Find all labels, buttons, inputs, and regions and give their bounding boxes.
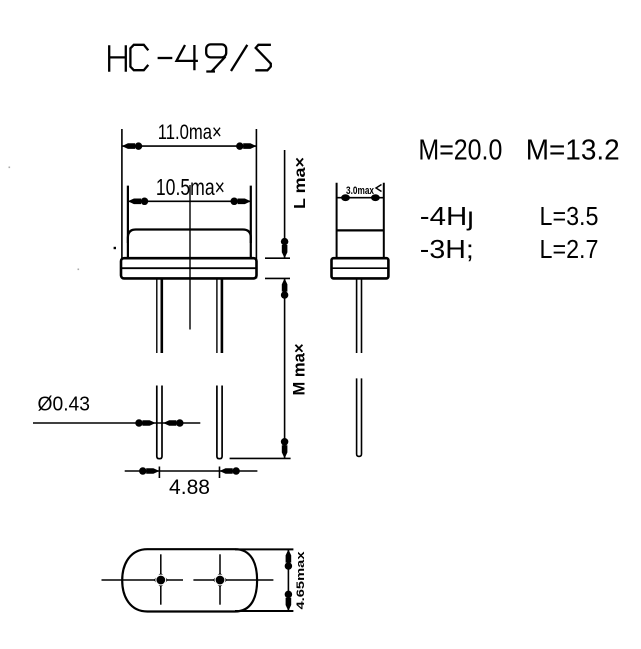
svg-text:4.88: 4.88: [169, 476, 210, 499]
svg-text:-4Hȷ: -4Hȷ: [420, 201, 474, 231]
svg-text:11.0ma×: 11.0ma×: [158, 121, 222, 144]
svg-text:M=13.2: M=13.2: [526, 135, 620, 167]
svg-text:M=20.0: M=20.0: [418, 135, 502, 167]
svg-text:L=3.5: L=3.5: [540, 201, 599, 231]
svg-text:M ma×: M ma×: [291, 344, 309, 396]
svg-text:Ø0.43: Ø0.43: [38, 394, 91, 416]
svg-text:-3H;: -3H;: [420, 234, 474, 264]
svg-text:L ma×: L ma×: [292, 157, 309, 209]
svg-text:4.65max: 4.65max: [295, 550, 307, 609]
svg-text:3.0max: 3.0max: [346, 185, 375, 197]
svg-text:L=2.7: L=2.7: [540, 234, 599, 264]
